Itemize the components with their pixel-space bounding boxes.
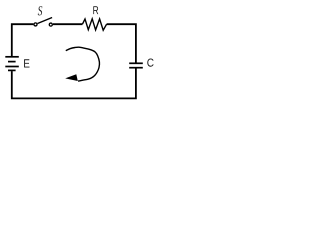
current direction arrow (clockwise open loop) bbox=[65, 47, 99, 81]
label S bbox=[38, 6, 42, 15]
capacitor bottom plate bbox=[129, 67, 143, 69]
switch S bbox=[34, 18, 52, 27]
arrow arc bbox=[66, 47, 100, 81]
switch blade bbox=[38, 18, 53, 24]
battery short plate 2 bbox=[8, 69, 16, 71]
wire: resistor to top-right corner and right upper lead bbox=[107, 24, 136, 62]
label R bbox=[93, 6, 98, 14]
capacitor top plate bbox=[129, 62, 143, 64]
circuit schematic: series loop with switch S, resistor R, capacitor C, battery E bbox=[0, 0, 161, 111]
wire: between switch and resistor bbox=[53, 23, 82, 25]
battery long plate 1 bbox=[5, 56, 18, 58]
wire: right lower lead, bottom wire, left lower lead (bottom corners) bbox=[12, 68, 136, 98]
switch left contact circle bbox=[34, 23, 37, 26]
battery long plate 2 bbox=[5, 66, 18, 68]
resistor R bbox=[82, 19, 106, 30]
switch right contact circle bbox=[49, 23, 52, 26]
wire: top-left segment and left upper lead (top-left corner) bbox=[12, 24, 34, 56]
label C bbox=[147, 58, 153, 66]
battery E bbox=[5, 57, 18, 71]
arrowhead bbox=[65, 74, 78, 81]
capacitor C bbox=[129, 63, 143, 67]
label E bbox=[24, 59, 29, 67]
battery short plate 1 bbox=[8, 61, 16, 63]
